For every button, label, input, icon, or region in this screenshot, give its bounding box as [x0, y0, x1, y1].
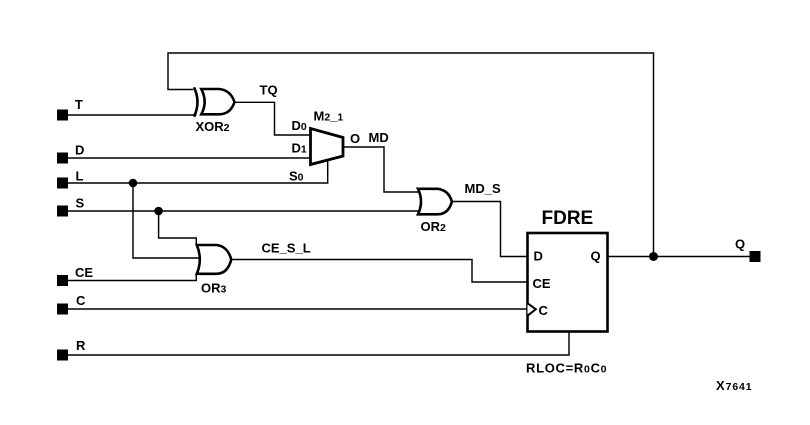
wire R to FDRE bottom — [62, 332, 569, 356]
wire D to mux D1 — [62, 157, 311, 159]
svg-text:R: R — [76, 338, 86, 353]
svg-text:TQ: TQ — [260, 83, 278, 98]
wire Q FDRE output to terminal Q — [608, 256, 751, 258]
wire CE to OR3 bottom input — [62, 274, 196, 281]
svg-text:Q: Q — [591, 249, 601, 264]
svg-text:D0: D0 — [292, 118, 307, 133]
svg-text:C: C — [539, 303, 549, 318]
svg-text:MD: MD — [369, 130, 389, 145]
wire C to FDRE clock — [62, 308, 528, 310]
wire S to OR2 lower input — [62, 210, 420, 212]
input terminal S — [57, 196, 85, 217]
svg-text:S0: S0 — [289, 169, 304, 184]
or gate OR2 — [418, 189, 452, 234]
svg-text:D1: D1 — [292, 141, 307, 156]
wire L branch to OR3 middle input — [133, 183, 200, 258]
svg-text:FDRE: FDRE — [542, 208, 594, 229]
input terminal CE — [57, 265, 93, 286]
svg-text:X7641: X7641 — [716, 378, 753, 393]
flip-flop FDRE — [528, 208, 608, 332]
junction on L wire — [129, 179, 138, 188]
input terminal R — [57, 338, 86, 361]
or gate OR3 — [197, 245, 232, 296]
wire S branch to OR3 top input — [159, 211, 197, 246]
svg-text:S: S — [76, 196, 85, 211]
svg-text:L: L — [76, 169, 84, 184]
svg-text:D: D — [534, 249, 543, 264]
svg-text:CE: CE — [533, 276, 551, 291]
junction on S wire — [154, 207, 163, 216]
svg-text:XOR2: XOR2 — [196, 119, 230, 134]
input terminal C — [57, 293, 86, 315]
svg-text:Q: Q — [735, 237, 745, 252]
clock triangle — [528, 303, 536, 316]
mux M2_1 — [311, 109, 344, 165]
svg-text:O: O — [350, 131, 360, 146]
input terminal D — [57, 143, 84, 164]
wire MD mux output to OR2 top input — [344, 147, 421, 192]
svg-text:OR2: OR2 — [421, 219, 447, 234]
svg-text:T: T — [75, 97, 83, 112]
svg-text:M2_1: M2_1 — [314, 109, 344, 124]
input terminal L — [57, 169, 84, 189]
wire TQ XOR2 output to mux D0 — [236, 102, 311, 135]
input terminal T — [57, 97, 83, 121]
svg-text:CE_S_L: CE_S_L — [262, 241, 311, 256]
svg-text:D: D — [75, 143, 84, 158]
xor gate XOR2 — [194, 87, 235, 134]
svg-text:MD_S: MD_S — [465, 181, 501, 196]
wire CE_S_L OR3 output to FDRE CE — [232, 260, 528, 283]
wire MD_S OR2 output to FDRE D — [452, 202, 528, 257]
svg-text:CE: CE — [75, 265, 93, 280]
svg-text:RLOC=R0C0: RLOC=R0C0 — [526, 361, 607, 376]
wire L to mux S0 — [62, 160, 328, 184]
output terminal Q — [735, 237, 761, 263]
svg-text:C: C — [76, 293, 86, 308]
junction on Q wire — [649, 252, 658, 261]
wire T to XOR2 — [62, 114, 197, 116]
svg-text:OR3: OR3 — [201, 281, 227, 296]
wire feedback Q to XOR2 top input — [168, 53, 654, 257]
